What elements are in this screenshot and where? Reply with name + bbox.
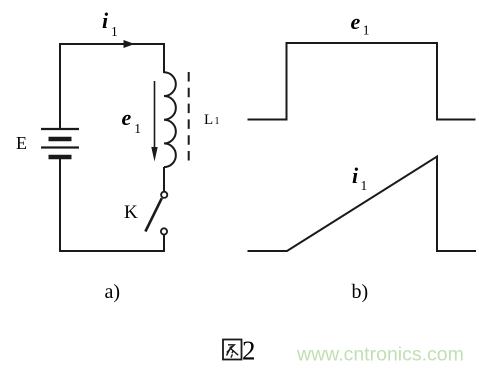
svg-text:www.cntronics.com: www.cntronics.com xyxy=(296,344,464,366)
inductor L1 coil xyxy=(164,72,176,167)
wire bottom xyxy=(59,250,164,252)
svg-text:e: e xyxy=(122,105,132,130)
voltage arrow e1 (downward) xyxy=(151,81,157,162)
svg-text:L: L xyxy=(204,112,213,128)
wire coil bottom to switch xyxy=(163,167,165,192)
svg-text:1: 1 xyxy=(361,178,368,193)
caption numeral 2 xyxy=(242,336,256,366)
svg-text:2: 2 xyxy=(242,336,256,366)
label a) xyxy=(105,281,121,303)
svg-text:1: 1 xyxy=(134,121,141,136)
label K xyxy=(124,202,138,223)
svg-text:e: e xyxy=(351,9,361,34)
label b) xyxy=(352,281,369,303)
label L1 xyxy=(204,112,220,128)
label E xyxy=(16,133,27,153)
wire left vertical lower (battery to bottom) xyxy=(59,158,61,251)
wire left vertical upper (to battery) xyxy=(59,43,61,129)
svg-text:i: i xyxy=(352,163,359,188)
label e1 (circuit) xyxy=(122,105,142,136)
svg-text:a): a) xyxy=(105,281,121,303)
waveform i1 (ramp) xyxy=(248,157,477,252)
svg-text:b): b) xyxy=(352,281,369,303)
wire right upper (top wire to coil) xyxy=(163,43,165,73)
svg-text:1: 1 xyxy=(215,116,220,127)
svg-text:i: i xyxy=(102,8,109,33)
svg-text:1: 1 xyxy=(363,23,370,38)
label i1 (waveform) xyxy=(352,163,367,193)
svg-text:1: 1 xyxy=(111,24,118,39)
svg-text:K: K xyxy=(124,202,138,223)
wire top (left branch to inductor) xyxy=(60,43,164,45)
switch K xyxy=(145,192,167,235)
inductor core (dashed line) xyxy=(188,72,190,162)
label e1 (waveform) xyxy=(351,9,370,38)
label i1 (circuit, top) xyxy=(102,8,118,39)
svg-text:E: E xyxy=(16,133,27,153)
battery E xyxy=(41,129,79,157)
watermark www.cntronics.com xyxy=(296,344,464,366)
current arrow i1 on top wire xyxy=(124,40,135,48)
waveform e1 (square pulse) xyxy=(248,43,476,120)
caption glyph 图 (drawn) xyxy=(223,340,242,360)
wire switch to bottom wire xyxy=(163,234,165,252)
